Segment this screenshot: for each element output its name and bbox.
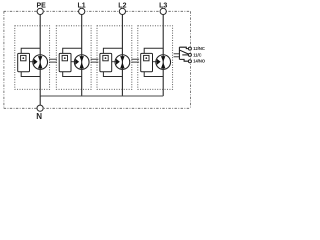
moving contact arm xyxy=(180,50,189,54)
enclosure bottom border xyxy=(4,107,191,109)
terminal 12 NC xyxy=(188,47,191,50)
terminal 11 C xyxy=(188,53,191,56)
svg-text:PE: PE xyxy=(37,2,47,9)
enclosure top border xyxy=(4,10,191,12)
enclosure right border xyxy=(190,11,192,108)
SPD module L3 path xyxy=(138,15,173,97)
svg-text:L3: L3 xyxy=(159,2,167,9)
linkage module 4 to contact xyxy=(174,54,180,57)
contact path NO xyxy=(179,59,188,61)
linkage module 1-2 xyxy=(49,59,57,62)
SPD module L2 path xyxy=(97,15,132,97)
contact common lead xyxy=(182,54,188,56)
enclosure left border xyxy=(3,11,5,108)
svg-text:N: N xyxy=(36,112,42,121)
N bus wire xyxy=(40,95,163,97)
terminal 14 NO xyxy=(188,60,191,63)
terminal PE xyxy=(37,8,43,14)
wire bus to N terminal xyxy=(39,96,41,108)
svg-text:12/NC: 12/NC xyxy=(193,46,205,51)
svg-text:11/C: 11/C xyxy=(193,52,201,57)
SPD module L1 path xyxy=(56,15,91,97)
linkage module 2-3 xyxy=(91,59,99,62)
svg-text:14/NO: 14/NO xyxy=(193,59,206,64)
terminal L3 xyxy=(160,8,166,14)
svg-text:L1: L1 xyxy=(78,2,86,9)
contact path NC xyxy=(179,47,188,48)
linkage module 3-4 xyxy=(131,59,139,62)
terminal L1 xyxy=(79,8,85,14)
contact frame left xyxy=(178,47,180,59)
terminal L2 xyxy=(119,8,125,14)
remote signalling changeover contact xyxy=(179,47,188,61)
terminal N xyxy=(37,105,43,111)
svg-text:L2: L2 xyxy=(118,2,126,9)
SPD module PE path xyxy=(15,15,50,97)
